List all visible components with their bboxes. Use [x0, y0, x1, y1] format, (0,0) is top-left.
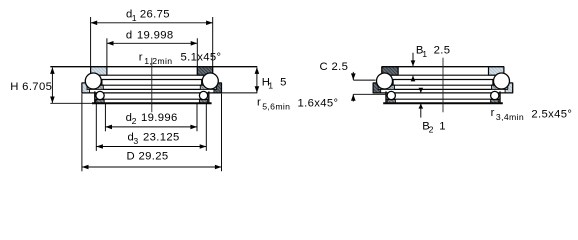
shaft washer top-right section (light)	[489, 67, 504, 76]
svg-text:r: r	[257, 96, 261, 108]
shaft washer top-left section (dark hatch)	[382, 67, 398, 76]
sleeve line	[95, 98, 209, 100]
svg-text:5: 5	[280, 76, 287, 88]
svg-text:H 6.705: H 6.705	[10, 81, 52, 93]
svg-text:2.5x45°: 2.5x45°	[531, 109, 572, 121]
washer bore line 2	[386, 84, 500, 86]
shaft washer top-left section (light)	[91, 67, 107, 76]
shaft washer outer edge left	[381, 67, 383, 76]
dimension D 29.25	[81, 94, 83, 172]
dimension d3 23.125	[95, 104, 97, 151]
washer bore line 3	[103, 88, 201, 90]
top face line right view	[382, 66, 504, 68]
outer flange top edge left	[373, 82, 379, 84]
dimension d1 26.75	[90, 17, 92, 66]
left seat under small ball (medium dark)	[387, 100, 395, 104]
small ball right (right view)	[491, 91, 499, 99]
bottom face line (thick)	[383, 102, 503, 104]
mid washer step left	[392, 80, 394, 86]
dimension d 19.998	[106, 38, 108, 66]
svg-text:19.996: 19.996	[141, 112, 178, 124]
svg-text:5,6min: 5,6min	[262, 101, 290, 111]
dimension d2 19.996	[104, 104, 106, 131]
right seat under small ball (medium dark)	[199, 100, 207, 104]
washer bore line 1	[386, 79, 500, 81]
svg-text:2: 2	[132, 116, 137, 126]
housing washer bottom line	[82, 92, 222, 94]
washer bore line 3	[394, 88, 492, 90]
svg-text:5.1x45°: 5.1x45°	[181, 51, 222, 63]
large ball left	[85, 73, 101, 89]
shaft washer bottom line	[382, 74, 504, 76]
center axis line left view	[151, 58, 153, 112]
svg-text:23.125: 23.125	[143, 132, 180, 144]
svg-text:2.5: 2.5	[434, 45, 451, 57]
shaft washer outer edge right	[503, 67, 505, 76]
washer bore line 1	[95, 79, 209, 81]
dimension H1 5	[256, 68, 258, 93]
sleeve wall right	[499, 91, 501, 103]
bottom face line (thick)	[92, 102, 212, 104]
svg-text:1: 1	[132, 13, 137, 23]
svg-text:1,2min: 1,2min	[144, 56, 172, 66]
housing washer outer-right flange (light)	[505, 83, 513, 93]
shaft washer outer edge right	[212, 67, 214, 76]
sleeve line	[386, 98, 500, 100]
small ball right	[199, 91, 207, 99]
housing washer bottom line	[373, 92, 513, 94]
svg-text:d: d	[126, 29, 133, 41]
svg-text:3,4min: 3,4min	[496, 112, 524, 122]
svg-text:1: 1	[268, 80, 273, 90]
housing washer outer-right flange (dark hatch)	[214, 83, 222, 93]
shaft washer bore edge right	[488, 67, 490, 76]
right seat under large ball (medium)	[492, 85, 508, 89]
svg-text:1: 1	[439, 121, 446, 133]
large ball right	[202, 73, 218, 89]
svg-text:19.998: 19.998	[137, 29, 174, 41]
left seat under large ball (medium)	[378, 85, 394, 89]
large ball left (right view)	[377, 73, 393, 89]
svg-text:r: r	[139, 51, 143, 63]
sleeve wall left	[94, 91, 96, 103]
shaft washer bore edge left	[397, 67, 399, 76]
washer bore line 2	[95, 84, 209, 86]
large ball right (right view)	[494, 73, 510, 89]
outer flange top edge left	[82, 82, 88, 84]
mid washer step right	[492, 80, 494, 86]
center axis line right view	[442, 58, 444, 112]
svg-text:r: r	[491, 107, 495, 119]
svg-text:C 2.5: C 2.5	[320, 61, 349, 73]
shaft washer top-right section (dark hatch)	[197, 67, 212, 76]
svg-text:1: 1	[422, 49, 427, 59]
outer diameter edge left	[81, 83, 83, 93]
sleeve wall left	[385, 91, 387, 103]
shaft washer outer edge left	[90, 67, 92, 76]
shaft washer bore edge left	[106, 67, 108, 76]
svg-text:1.6x45°: 1.6x45°	[298, 98, 339, 110]
top face line with H/H1 extension	[50, 66, 257, 68]
left seat under large ball (medium)	[87, 85, 103, 89]
right seat under large ball (medium)	[200, 85, 216, 89]
outer diameter edge right	[512, 83, 514, 93]
small ball left	[96, 91, 104, 99]
small ball left (right view)	[387, 91, 395, 99]
outer flange top edge right	[216, 82, 222, 84]
shaft washer bore edge right	[196, 67, 198, 76]
mid washer step left	[101, 80, 103, 86]
outer diameter edge right	[221, 83, 223, 93]
housing washer outer-left flange (light)	[82, 83, 90, 93]
left seat under small ball (medium dark)	[96, 100, 104, 104]
outer diameter edge left	[372, 83, 374, 93]
outer flange top edge right	[507, 82, 513, 84]
mid washer step right	[201, 80, 203, 86]
shaft washer bottom line	[91, 74, 213, 76]
svg-text:3: 3	[133, 136, 138, 146]
housing washer outer-left flange (dark hatch)	[373, 83, 381, 93]
sleeve wall right	[208, 91, 210, 103]
svg-text:26.75: 26.75	[140, 9, 170, 21]
right seat under small ball (medium dark)	[491, 100, 499, 104]
svg-text:D 29.25: D 29.25	[127, 151, 169, 163]
svg-text:2: 2	[429, 125, 434, 135]
